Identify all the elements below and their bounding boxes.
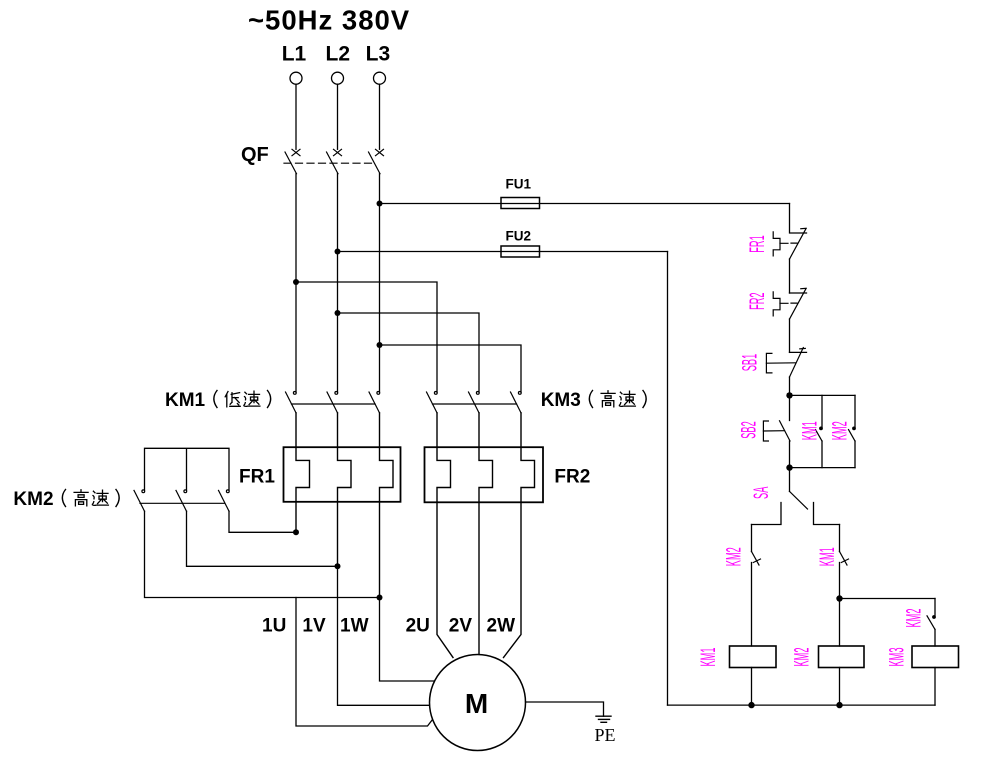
control: KM1 NO contact — [816, 395, 823, 467]
wire KM1 pole3 to FR1 — [380, 413, 394, 598]
wire KM1 pole2 to FR1 — [338, 413, 352, 567]
svg-text:KM1: KM1 — [816, 547, 839, 566]
svg-text:KM2: KM2 — [722, 547, 745, 566]
svg-text:KM3: KM3 — [541, 390, 581, 411]
coil KM3 — [912, 646, 959, 705]
wire tap KM3 pole1 — [296, 282, 437, 392]
motor M — [430, 655, 526, 751]
node start branch bottom — [786, 464, 792, 470]
wire motor to PE — [526, 702, 604, 716]
node KM3 branch — [836, 595, 842, 601]
wire parallel top rail — [790, 394, 856, 396]
wire L3 to QF — [379, 84, 381, 149]
coil KM1 — [730, 646, 777, 705]
contactor KM1 contacts — [286, 392, 380, 413]
svg-text:1W: 1W — [340, 616, 369, 637]
svg-text:KM3: KM3 — [885, 647, 908, 666]
wire parallel bottom rail — [790, 467, 856, 469]
node tap KM3 pole3 — [377, 342, 383, 348]
wire L2 to QF — [337, 84, 339, 149]
contactor KM2 contacts — [134, 490, 229, 511]
svg-text:KM1: KM1 — [697, 647, 720, 666]
control: SB1 NC pushbutton — [766, 348, 806, 378]
node KM2-1V junction — [335, 563, 341, 569]
control: KM2 NO for KM3 — [927, 599, 935, 647]
wire control bottom rail — [668, 704, 936, 706]
wire KM2 pole1 out — [145, 511, 380, 597]
svg-text:1V: 1V — [302, 616, 326, 637]
terminal L2 — [332, 72, 344, 84]
contactor KM3 contacts — [427, 392, 522, 413]
wire FR2-SB1 — [789, 319, 791, 352]
wire KM1 pole1 to FR1 — [296, 413, 310, 533]
control: KM1 NC interlock — [840, 525, 849, 647]
svg-text:FR1: FR1 — [239, 467, 275, 488]
svg-text:1U: 1U — [262, 616, 286, 637]
breaker QF pole 2 — [327, 149, 342, 173]
wire 1W to motor — [380, 598, 435, 682]
wire KM3 pole3 to FR2 — [504, 413, 535, 658]
ground PE — [596, 716, 611, 722]
wire KM3 branch — [840, 598, 936, 600]
wire FU1 feed — [380, 203, 790, 205]
svg-text:L3: L3 — [366, 43, 391, 66]
terminal L1 — [290, 72, 302, 84]
svg-text:L2: L2 — [326, 43, 351, 66]
wire tap KM3 pole2 — [338, 313, 480, 392]
wire 1U to motor — [296, 598, 433, 727]
svg-text:FU1: FU1 — [506, 177, 532, 192]
contactor KM3 label — [541, 390, 646, 411]
contactor KM2 label — [13, 489, 119, 510]
svg-text:2V: 2V — [449, 616, 473, 637]
control: KM2 NC interlock — [752, 525, 761, 647]
terminal L3 — [374, 72, 386, 84]
node FU2 tap — [335, 249, 341, 255]
wire L1 to QF — [295, 84, 297, 149]
control: FR2 NC contact — [773, 288, 806, 319]
wire 1V to motor — [338, 566, 430, 705]
motor terminal labels — [262, 616, 515, 637]
svg-text:2W: 2W — [487, 616, 516, 637]
breaker QF linkage — [284, 162, 376, 164]
svg-text:KM2: KM2 — [13, 489, 53, 510]
svg-text:M: M — [465, 688, 488, 719]
svg-text:KM2: KM2 — [902, 608, 925, 627]
svg-text:SB1: SB1 — [738, 354, 761, 371]
breaker QF pole 3 — [369, 149, 384, 173]
wire KM3 pole2 to FR2 — [479, 413, 493, 655]
wire KM3 pole1 to FR2 — [437, 413, 453, 658]
wire tap KM3 pole3 — [380, 345, 522, 392]
node tap KM3 pole2 — [335, 310, 341, 316]
contactor KM1 label — [165, 390, 271, 411]
node rail KM2 — [836, 702, 842, 708]
svg-text:2U: 2U — [406, 616, 430, 637]
svg-text:KM2: KM2 — [828, 421, 851, 440]
wire phase A vertical — [295, 174, 297, 392]
node start branch top — [786, 392, 792, 398]
wire FU2 feed — [338, 251, 668, 253]
coil KM2 — [819, 646, 865, 705]
node KM2-1U junction — [293, 529, 299, 535]
svg-text:KM2: KM2 — [790, 647, 813, 666]
node FU1 tap — [377, 201, 383, 207]
wire FR1-FR2 — [789, 259, 791, 293]
wire SB1 to node — [789, 377, 791, 395]
wire FU2 return drop — [667, 252, 669, 706]
svg-text:PE: PE — [595, 725, 616, 745]
control: KM2 NO contact — [849, 395, 856, 467]
node rail KM1 — [748, 702, 754, 708]
thermal relay FR1 heater box — [239, 447, 401, 502]
svg-text:SB2: SB2 — [737, 421, 760, 438]
breaker QF pole 1 — [285, 149, 300, 173]
svg-text:FU2: FU2 — [506, 229, 532, 244]
svg-text:FR2: FR2 — [746, 292, 769, 309]
contactor KM2 bus — [145, 448, 230, 490]
svg-text:L1: L1 — [282, 43, 307, 66]
fuse FU1 — [501, 177, 540, 209]
fuse FU2 — [501, 229, 540, 258]
wire KM2 pole2 out — [187, 511, 338, 566]
node tap KM3 pole1 — [293, 279, 299, 285]
svg-text:KM1: KM1 — [798, 421, 821, 440]
wire KM2 pole3 out — [229, 511, 296, 532]
svg-text:FR2: FR2 — [554, 467, 590, 488]
svg-text:FR1: FR1 — [746, 235, 769, 252]
wire phase B vertical — [337, 174, 339, 392]
control: SA selector switch — [752, 468, 840, 525]
wire phase C vertical — [379, 174, 381, 392]
thermal relay FR2 heater box — [425, 447, 591, 502]
svg-text:QF: QF — [241, 144, 269, 166]
control: FR1 NC contact — [773, 204, 806, 260]
svg-text:KM1: KM1 — [165, 390, 206, 411]
node KM2-1W junction — [377, 595, 383, 601]
svg-text:SA: SA — [750, 487, 773, 499]
svg-text:~50Hz 380V: ~50Hz 380V — [248, 5, 410, 36]
control: SB2 NO pushbutton — [763, 395, 790, 467]
